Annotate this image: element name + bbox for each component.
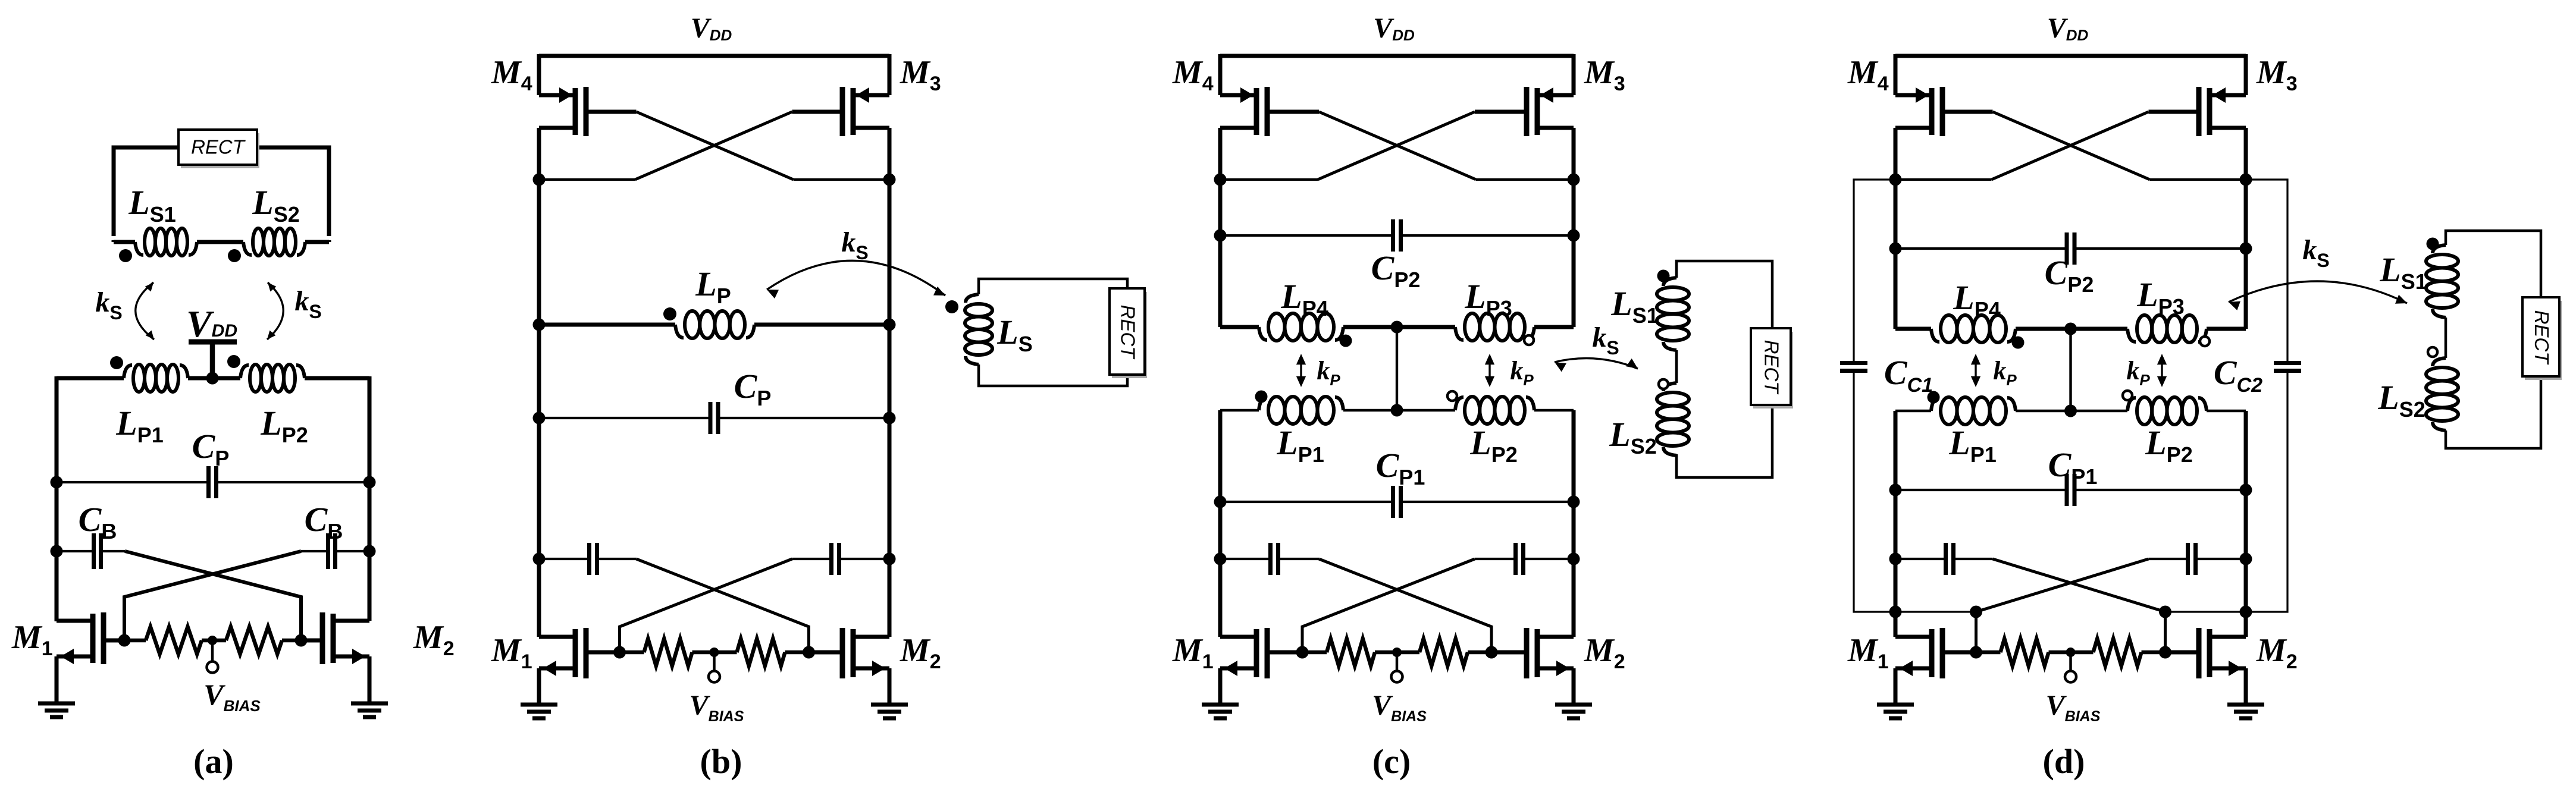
inductor LP3 (c) bbox=[1455, 327, 1464, 340]
wire center column (d) bbox=[2069, 329, 2072, 411]
capacitor crosscap right (b) bbox=[837, 543, 841, 575]
transistor M4 (d) bbox=[1929, 88, 1935, 135]
inductor LP1 (d) bbox=[1931, 398, 1939, 411]
wire M2 source to ground (d) bbox=[2244, 668, 2248, 705]
inductor LP2 (a) bbox=[240, 365, 249, 378]
phase circle LS2 (c) bbox=[1659, 379, 1668, 389]
junction CP1 right (c) bbox=[1568, 496, 1580, 508]
junction bias center (a) bbox=[208, 636, 217, 645]
wire left rail mid (b) bbox=[537, 180, 541, 637]
coupling arrow kS right (a) bbox=[267, 282, 283, 340]
junction drain rail left (b) bbox=[533, 174, 546, 186]
wire secondary loop (b) bbox=[979, 279, 1127, 386]
wire secondary loop (a) bbox=[114, 147, 329, 236]
wire drain rail right (b) bbox=[794, 178, 890, 181]
phase circle LS2 (d) bbox=[2428, 347, 2437, 357]
ground M2 (a) bbox=[351, 702, 388, 706]
wire CP2 row (c) bbox=[1220, 234, 1393, 237]
capacitor crosscap left (b) bbox=[587, 543, 591, 575]
wire VDD rail (c) bbox=[1220, 54, 1574, 58]
wire drain rail right (d) bbox=[2150, 178, 2246, 181]
wire drain rail left (d) bbox=[1895, 178, 1992, 181]
wire CP row (a) bbox=[57, 481, 209, 483]
junction CP2 left (d) bbox=[1889, 243, 1902, 255]
inductor LS1 (c) bbox=[1663, 278, 1676, 286]
coupling arrow kP left (d) bbox=[1975, 357, 1976, 384]
capacitor CP1 (d) bbox=[2065, 474, 2069, 506]
resistor bias right (d) bbox=[2094, 639, 2142, 666]
junction LP left (b) bbox=[533, 319, 546, 331]
inductor LP2 (c) bbox=[1455, 397, 1464, 410]
capacitor CC1 (d) bbox=[1840, 361, 1867, 365]
transistor M1 (a) bbox=[90, 614, 96, 663]
wire cross M4gate (d) bbox=[1993, 112, 2150, 180]
wire right rail bottom (d) bbox=[2244, 559, 2248, 637]
wire left rail top (d) bbox=[1894, 54, 1898, 95]
ground M2 (c) bbox=[1555, 703, 1592, 707]
wire right rail bottom (c) bbox=[1572, 559, 1576, 637]
terminal VBIAS (b) bbox=[713, 652, 716, 671]
coupling arrow kP left (c) bbox=[1300, 357, 1302, 384]
capacitor CP2 (c) bbox=[1391, 219, 1395, 252]
transistor M3 (b) bbox=[851, 88, 856, 135]
junction CP right (b) bbox=[883, 412, 896, 425]
supply VDD bar (a) bbox=[189, 340, 237, 345]
ground M1 (c) bbox=[1202, 703, 1239, 707]
ground M2 (d) bbox=[2227, 703, 2264, 707]
inductor LP1 (c) bbox=[1259, 397, 1267, 410]
capacitor CP (b) bbox=[709, 402, 713, 434]
capacitor CC2 (d) bbox=[2274, 361, 2301, 365]
junction drain rail left (d) bbox=[1889, 174, 1902, 186]
wire left rail (a) bbox=[55, 376, 59, 621]
wire right rail (a) bbox=[368, 376, 372, 621]
wire LP row (b) bbox=[539, 323, 675, 327]
phase dot LS2 (a) bbox=[228, 249, 241, 262]
junction center bottom (d) bbox=[2064, 405, 2077, 417]
wire crosscap row right (b) bbox=[839, 558, 890, 560]
phase dot LP1 (d) bbox=[1928, 391, 1940, 404]
terminal VBIAS (c) bbox=[1396, 652, 1399, 671]
resistor bias right (c) bbox=[1419, 639, 1468, 666]
wire crosscap row right (c) bbox=[1524, 558, 1574, 560]
junction center top (d) bbox=[2064, 323, 2077, 335]
wire left rail mid (d) bbox=[1894, 180, 1898, 329]
junction gate node left (d) bbox=[1970, 646, 1982, 659]
wire cross left-to-right (a) bbox=[125, 551, 301, 640]
wire left rail bottom (b) bbox=[537, 559, 541, 637]
block RECT (a) bbox=[181, 133, 259, 168]
inductor LS1 (a) bbox=[135, 242, 143, 255]
block RECT (c) bbox=[1753, 332, 1793, 408]
junction gate node left (a) bbox=[118, 634, 131, 647]
wire cross right-to-left (c) bbox=[1302, 559, 1475, 652]
svg-text:RECT: RECT bbox=[2531, 310, 2553, 366]
junction bias center (b) bbox=[710, 648, 719, 657]
wire center column (c) bbox=[1396, 327, 1398, 410]
junction riser right (d) bbox=[2159, 606, 2171, 618]
junction gate node right (b) bbox=[803, 646, 815, 659]
wire cross M4gate (c) bbox=[1319, 112, 1476, 180]
wire crosscap row left (c) bbox=[1220, 558, 1271, 560]
wire cross M4gate (b) bbox=[637, 112, 794, 180]
inductor LP (b) bbox=[675, 325, 684, 338]
wire gate row (d) bbox=[1976, 650, 2001, 655]
capacitor CB left (a) bbox=[92, 533, 96, 569]
junction outer left rail (d) bbox=[1889, 606, 1902, 618]
wire cross right-to-left (d) bbox=[1976, 559, 2149, 652]
phase circle LP3 (d) bbox=[2200, 337, 2210, 346]
wire crosscap row left (d) bbox=[1895, 558, 1946, 560]
junction crosscap left (d) bbox=[1889, 553, 1902, 565]
junction CB row left (a) bbox=[51, 545, 63, 558]
wire upper coil row (c) bbox=[1218, 325, 1223, 327]
transistor M1 (b) bbox=[573, 629, 578, 677]
junction crosscap right (c) bbox=[1568, 553, 1580, 565]
wire M2 source to ground (b) bbox=[888, 668, 892, 705]
wire VDD rail (d) bbox=[1895, 54, 2246, 58]
wire drain rail left (c) bbox=[1220, 178, 1318, 181]
inductor LS (b) bbox=[966, 294, 979, 303]
coupling arrow kP right (c) bbox=[1488, 357, 1490, 384]
coupling arrow kS (b) bbox=[767, 260, 945, 296]
phase dot LP1 (c) bbox=[1255, 391, 1268, 403]
resistor bias left (b) bbox=[644, 639, 692, 666]
coupling arrow kP right (d) bbox=[2161, 357, 2163, 384]
inductor LS1 (d) bbox=[2433, 245, 2446, 253]
junction CP left (b) bbox=[533, 412, 546, 425]
capacitor crosscap right (d) bbox=[2193, 543, 2198, 575]
wire CP1 row (c) bbox=[1220, 501, 1393, 503]
wire drain rail left (b) bbox=[539, 178, 635, 181]
svg-text:RECT: RECT bbox=[1117, 305, 1139, 360]
junction crosscap right (d) bbox=[2240, 553, 2252, 565]
coupling arrow kS left (a) bbox=[136, 282, 154, 340]
resistor bias left (c) bbox=[1327, 639, 1375, 666]
capacitor crosscap left (d) bbox=[1944, 543, 1948, 575]
wire cross right-to-left (a) bbox=[124, 551, 301, 640]
wire M2 source to ground (a) bbox=[368, 656, 372, 703]
wire left rail lower (c) bbox=[1218, 410, 1223, 559]
inductor LP3 (d) bbox=[2127, 329, 2136, 342]
junction crosscap right (b) bbox=[883, 553, 896, 565]
wire upper coil row (d) bbox=[1895, 327, 1931, 331]
junction gate node left (b) bbox=[613, 646, 626, 659]
wire gate row (b) bbox=[620, 650, 644, 655]
junction bias center (c) bbox=[1392, 648, 1402, 657]
wire right rail top (b) bbox=[888, 54, 892, 95]
capacitor CP (a) bbox=[206, 466, 211, 498]
wire right rail lower (d) bbox=[2244, 411, 2248, 559]
inductor LS2 (d) bbox=[2433, 358, 2446, 366]
junction center bottom (c) bbox=[1391, 404, 1403, 417]
wire CB right (a) bbox=[336, 550, 370, 552]
junction CP2 right (c) bbox=[1568, 230, 1580, 242]
inductor LS2 (c) bbox=[1663, 383, 1676, 391]
junction CP1 right (d) bbox=[2240, 484, 2252, 496]
wire cross left-to-right (c) bbox=[1319, 559, 1491, 652]
junction CP right (a) bbox=[363, 476, 376, 489]
phase dot LP4 (c) bbox=[1340, 335, 1352, 347]
resistor bias right (b) bbox=[737, 639, 785, 666]
capacitor crosscap right (c) bbox=[1521, 543, 1525, 575]
wire outer left (d) bbox=[1854, 180, 1895, 363]
transistor M2 (a) bbox=[331, 614, 336, 663]
junction crosscap left (c) bbox=[1214, 553, 1227, 565]
capacitor CP2 (d) bbox=[2065, 232, 2069, 265]
junction drain rail right (d) bbox=[2240, 174, 2252, 186]
transistor M1 (c) bbox=[1254, 629, 1259, 677]
svg-text:(c): (c) bbox=[1372, 742, 1411, 781]
wire right rail lower (c) bbox=[1572, 410, 1576, 559]
junction CP2 right (d) bbox=[2240, 243, 2252, 255]
junction bias center (d) bbox=[2066, 648, 2076, 657]
coupling arrow kS (c) bbox=[1555, 359, 1638, 369]
transistor M2 (c) bbox=[1535, 629, 1540, 677]
junction gate node right (c) bbox=[1486, 646, 1498, 659]
coupling arrow kS (d) bbox=[2229, 281, 2407, 303]
wire VDD rail (b) bbox=[539, 54, 889, 58]
wire cross M3gate (b) bbox=[635, 112, 792, 180]
wire left rail bottom (c) bbox=[1218, 559, 1223, 637]
wire secondary loop (c) bbox=[1676, 261, 1772, 477]
wire drain rail right (c) bbox=[1476, 178, 1574, 181]
svg-text:(a): (a) bbox=[193, 742, 234, 781]
block RECT (d) bbox=[2525, 301, 2562, 380]
wire tank top row (a) bbox=[57, 376, 124, 381]
phase dot LS (b) bbox=[945, 300, 958, 313]
ground M2 (b) bbox=[871, 703, 908, 707]
junction CP1 left (c) bbox=[1214, 496, 1227, 508]
wire right rail mid (c) bbox=[1572, 180, 1576, 327]
wire right rail mid (b) bbox=[888, 180, 892, 637]
wire left rail mid (c) bbox=[1218, 180, 1223, 327]
capacitor CP1 (c) bbox=[1391, 486, 1395, 518]
inductor LS2 (a) bbox=[243, 242, 252, 255]
wire CP row (b) bbox=[539, 417, 710, 419]
wire secondary loop (d) bbox=[2446, 231, 2541, 448]
resistor bias right (a) bbox=[226, 627, 282, 654]
transistor M4 (c) bbox=[1254, 88, 1259, 135]
inductor LP1 (a) bbox=[124, 365, 132, 378]
junction gate node right (a) bbox=[295, 634, 308, 647]
block RECT (b) bbox=[1112, 292, 1147, 378]
wire cross left-to-right (b) bbox=[637, 559, 809, 652]
phase dot LS1 (c) bbox=[1657, 270, 1670, 282]
phase dot LP (b) bbox=[663, 307, 676, 320]
terminal VBIAS (d) bbox=[2069, 652, 2072, 671]
phase dot LP2 (a) bbox=[227, 355, 240, 368]
wire cross M3gate (c) bbox=[1318, 112, 1475, 180]
phase dot LS1 (a) bbox=[119, 249, 132, 262]
wire left rail top (c) bbox=[1218, 54, 1223, 95]
wire M1 source to ground (b) bbox=[537, 668, 541, 705]
wire cross M3gate (d) bbox=[1992, 112, 2149, 180]
junction gate node left (c) bbox=[1296, 646, 1309, 659]
transistor M4 (b) bbox=[573, 88, 578, 135]
junction gate node right (d) bbox=[2159, 646, 2171, 659]
wire right rail mid (d) bbox=[2244, 180, 2248, 329]
transistor M1 (d) bbox=[1929, 629, 1935, 677]
junction CP1 left (d) bbox=[1889, 484, 1902, 496]
wire CP1 row (d) bbox=[1895, 489, 2067, 491]
transistor M2 (b) bbox=[851, 629, 856, 677]
capacitor crosscap left (c) bbox=[1268, 543, 1273, 575]
junction riser left (d) bbox=[1970, 606, 1982, 618]
terminal VBIAS (a) bbox=[211, 640, 214, 662]
junction drain rail right (b) bbox=[883, 174, 896, 186]
inductor LP2 (d) bbox=[2127, 398, 2136, 411]
wire left rail top (b) bbox=[537, 54, 541, 95]
wire lower coil row (d) bbox=[1895, 410, 1931, 413]
ground M1 (d) bbox=[1877, 703, 1914, 707]
wire right rail top (c) bbox=[1572, 54, 1576, 95]
junction crosscap left (b) bbox=[533, 553, 546, 565]
wire cross right-to-left (b) bbox=[620, 559, 792, 652]
wire M1 source to ground (a) bbox=[55, 656, 59, 703]
wire CB left (a) bbox=[57, 550, 94, 552]
wire crosscap row left (b) bbox=[539, 558, 590, 560]
phase dot LP4 (d) bbox=[2012, 337, 2025, 349]
wire M1 source to ground (d) bbox=[1894, 668, 1898, 705]
svg-text:RECT: RECT bbox=[191, 136, 246, 158]
junction CB row right (a) bbox=[363, 545, 376, 558]
junction drain rail left (c) bbox=[1214, 174, 1227, 186]
transistor M2 (d) bbox=[2207, 629, 2213, 677]
ground M1 (a) bbox=[38, 702, 75, 706]
resistor bias left (a) bbox=[146, 627, 202, 654]
wire gate row (c) bbox=[1302, 650, 1327, 655]
phase dot LP1 (a) bbox=[110, 356, 123, 369]
phase circle LP3 (c) bbox=[1524, 335, 1534, 345]
transistor M3 (c) bbox=[1535, 88, 1540, 135]
junction LP right (b) bbox=[883, 319, 896, 331]
inductor LP4 (d) bbox=[1931, 329, 1939, 342]
junction VDD tap (a) bbox=[206, 372, 219, 385]
ground M1 (b) bbox=[521, 703, 557, 707]
junction center top (c) bbox=[1391, 321, 1403, 334]
junction drain rail right (c) bbox=[1568, 174, 1580, 186]
wire M2 source to ground (c) bbox=[1572, 668, 1576, 705]
wire lower coil row (c) bbox=[1220, 409, 1259, 412]
wire M1 source to ground (c) bbox=[1218, 668, 1223, 705]
wire CP2 row (d) bbox=[1895, 247, 2067, 250]
wire left rail bottom (d) bbox=[1894, 559, 1898, 637]
junction CP left (a) bbox=[51, 476, 63, 489]
junction CP2 left (c) bbox=[1214, 230, 1227, 242]
phase circle LP2 (d) bbox=[2123, 391, 2132, 400]
phase dot LS1 (d) bbox=[2427, 238, 2439, 250]
wire right rail top (d) bbox=[2244, 54, 2248, 95]
resistor bias left (d) bbox=[2001, 639, 2049, 666]
svg-text:RECT: RECT bbox=[1761, 340, 1783, 395]
wire crosscap row right (d) bbox=[2196, 558, 2246, 560]
junction outer right rail (d) bbox=[2240, 606, 2252, 618]
phase circle LP2 (c) bbox=[1447, 391, 1457, 401]
wire cross left-to-right (d) bbox=[1993, 559, 2166, 652]
svg-text:(b): (b) bbox=[700, 742, 742, 781]
wire outer right (d) bbox=[2246, 180, 2287, 363]
capacitor CB right (a) bbox=[326, 533, 330, 569]
wire right rail bottom (b) bbox=[888, 559, 892, 637]
wire gate row (a) bbox=[124, 639, 146, 643]
transistor M3 (d) bbox=[2207, 88, 2213, 135]
svg-text:(d): (d) bbox=[2043, 742, 2085, 781]
wire left rail lower (d) bbox=[1894, 411, 1898, 559]
inductor LP4 (c) bbox=[1259, 327, 1267, 340]
